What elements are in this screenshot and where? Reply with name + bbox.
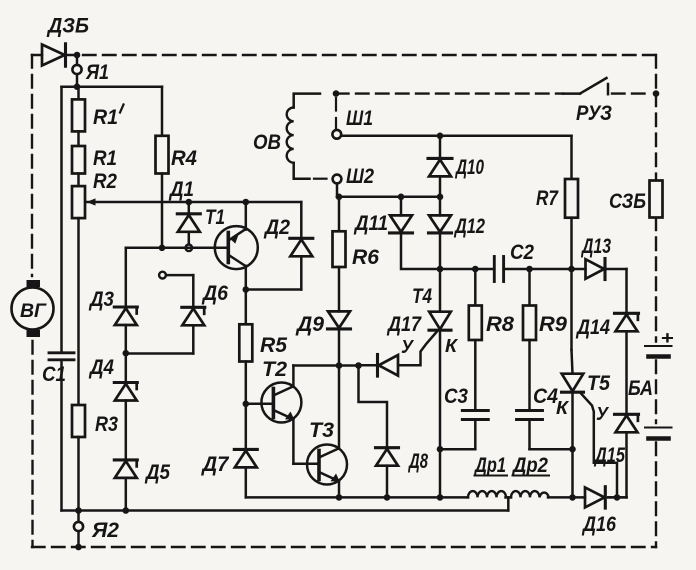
capacitor C3	[462, 411, 488, 420]
wire top-left horizontal	[62, 85, 163, 88]
svg-text:К: К	[556, 398, 570, 418]
label Д16	[581, 513, 616, 536]
wire Д16 to Д15 corner	[608, 496, 626, 499]
terminal Я1 circle	[72, 55, 81, 87]
wire R5 to Т2 base node	[245, 362, 248, 404]
wire test point to Д6	[166, 275, 193, 307]
node R4 / base line	[159, 245, 166, 252]
resistor R1'	[72, 99, 85, 131]
label Д15	[593, 444, 625, 467]
node C4 / Т5 cathode line	[569, 446, 576, 453]
node Т1 collector / R5	[243, 286, 250, 293]
svg-text:Д2: Д2	[263, 216, 290, 239]
diode Д10	[428, 136, 452, 197]
choke Др1	[468, 491, 506, 497]
diode Д13	[586, 259, 606, 280]
resistor R8	[469, 269, 482, 340]
resistor R6	[333, 197, 346, 267]
terminal Ш1 circle	[332, 130, 341, 139]
wire C2 line right	[504, 268, 586, 271]
svg-text:Др1: Др1	[473, 454, 506, 477]
dashed link to Ш2	[314, 178, 331, 180]
enclosure border right segment 2 (dashed)	[655, 94, 657, 181]
transistor Т1 collector	[228, 255, 246, 290]
wire R7 to C2 line	[570, 218, 573, 269]
diode Д11	[390, 197, 441, 269]
wire to R1'	[77, 87, 80, 100]
transistor Т3 circle	[307, 445, 347, 485]
svg-text:С4: С4	[533, 385, 558, 408]
svg-text:С2: С2	[510, 241, 534, 264]
diode ДЗБ (battery-sense diode, top-left)	[42, 44, 66, 66]
wire Т4 cathode down	[439, 449, 442, 497]
label Я1	[85, 61, 109, 84]
enclosure border right segment 5 (dashed)	[655, 443, 657, 548]
label Д2	[263, 216, 290, 239]
label ВГ	[20, 301, 47, 322]
diode Д17	[378, 355, 399, 377]
node C3 / Т4 cathode line	[437, 446, 444, 453]
diode Д12	[429, 197, 452, 269]
node R8 top	[472, 266, 479, 273]
test point circle near Д6	[159, 272, 166, 279]
svg-text:R6: R6	[352, 246, 379, 269]
svg-text:R2: R2	[93, 170, 117, 193]
wire bottom main	[246, 496, 468, 499]
transistor Т2 base bar	[272, 389, 276, 418]
wire R3 to lower bottom wire	[77, 437, 80, 511]
svg-text:Т2: Т2	[262, 358, 287, 381]
wire R8 to C3	[474, 340, 477, 411]
diode Д2	[290, 202, 313, 290]
resistor R1	[72, 146, 85, 174]
enclosure border left lower (dashed)	[31, 341, 33, 547]
label Д9	[295, 313, 324, 336]
label Д1	[168, 178, 194, 201]
diode Д8	[376, 448, 399, 498]
label РУЗ	[576, 102, 612, 125]
node R7 / Д13 / Т5	[568, 266, 575, 273]
diode Д7	[234, 404, 257, 498]
node У line on output	[614, 494, 621, 501]
fuse СЗБ	[650, 181, 663, 218]
svg-text:СЗБ: СЗБ	[609, 190, 646, 213]
svg-text:Д17: Д17	[386, 313, 422, 336]
node Д12 top	[437, 194, 444, 201]
generator ВГ top brush	[27, 280, 41, 287]
label Т3	[309, 419, 334, 442]
svg-text:Т1: Т1	[205, 206, 225, 229]
choke midpoint riser	[506, 497, 512, 510]
svg-text:R7: R7	[536, 187, 559, 210]
thyristor Т4 gate wire	[400, 332, 437, 365]
label У of Т5	[596, 404, 610, 424]
label Т1	[205, 206, 225, 229]
zener Д15	[615, 414, 639, 432]
transistor Т1 circle	[215, 226, 258, 269]
dashed wire РУЗ line	[336, 92, 563, 94]
resistor R7	[565, 179, 578, 218]
node Т4 cathode bottom	[437, 494, 444, 501]
terminal Ш2 circle	[333, 175, 342, 184]
transistor Т3 emitter with arrow	[319, 472, 340, 497]
diode Д9	[328, 311, 351, 365]
wire Ш2 line	[339, 196, 440, 199]
svg-text:ДЗБ: ДЗБ	[46, 15, 89, 38]
wire collector line	[293, 364, 358, 367]
wire C3 to node	[440, 420, 475, 450]
svg-text:Д13: Д13	[580, 235, 611, 258]
wire Я1-node down to C1	[60, 87, 63, 353]
battery cell 2 long plate	[645, 427, 672, 429]
svg-text:БА: БА	[628, 377, 653, 400]
node Я2 on border	[75, 544, 82, 551]
zener Д14	[615, 313, 639, 331]
svg-text:Д6: Д6	[201, 282, 228, 305]
svg-text:Д1: Д1	[168, 178, 194, 201]
label Д3	[88, 288, 114, 311]
transistor Т2 circle	[261, 383, 301, 423]
wire Д17 cathode to node	[359, 364, 378, 367]
label Д14	[575, 316, 610, 339]
wire Д2 bottom to Т1 collector node	[246, 288, 301, 291]
capacitor C2	[494, 257, 503, 282]
transistor Т2 collector	[273, 366, 293, 396]
label Др1	[473, 454, 507, 477]
node Ш2 / R6	[336, 194, 343, 201]
svg-text:Д7: Д7	[201, 453, 230, 476]
resistor R9	[523, 269, 536, 340]
label ОВ	[253, 131, 281, 154]
zener Д5	[114, 460, 137, 511]
svg-text:РУЗ: РУЗ	[576, 102, 612, 125]
resistor R5	[239, 290, 252, 362]
wire base line	[126, 247, 228, 250]
svg-text:У: У	[401, 337, 415, 357]
small circle Д1 cathode on base line	[186, 245, 193, 252]
svg-text:R3: R3	[95, 413, 118, 436]
wire R2 down to R3	[77, 218, 80, 405]
svg-text:У: У	[596, 404, 610, 424]
label Ш2	[346, 165, 374, 188]
wire Т5 cathode down	[571, 449, 574, 497]
label Др2	[511, 454, 549, 477]
wire R1'-R1	[77, 131, 80, 146]
enclosure border left upper (dashed)	[31, 55, 33, 276]
node at top border / Я1	[74, 52, 81, 59]
svg-text:ВГ: ВГ	[20, 301, 47, 322]
label Д7	[201, 453, 230, 476]
svg-text:Др2: Др2	[511, 454, 548, 477]
svg-text:Я2: Я2	[91, 519, 119, 542]
wire lower bottom	[62, 509, 509, 512]
label К of Т5	[556, 398, 570, 418]
svg-text:Т3: Т3	[309, 419, 334, 442]
node Д1 top	[186, 199, 193, 206]
wiper arrow into R2	[87, 198, 302, 205]
capacitor C1	[49, 353, 74, 360]
node Т5 cathode bottom	[569, 494, 576, 501]
relay contact РУЗ	[563, 78, 608, 94]
label СЗБ	[609, 190, 646, 213]
label R6	[352, 246, 379, 269]
capacitor C4	[517, 411, 543, 420]
label Т4	[412, 285, 432, 308]
svg-text:ОВ: ОВ	[253, 131, 281, 154]
label Д4	[88, 356, 114, 379]
wire C1 to lower bottom wire	[60, 360, 63, 511]
wire Др2 to Д16	[548, 496, 585, 499]
label Я2	[91, 519, 119, 542]
wire to R4	[161, 87, 164, 136]
svg-text:Д5: Д5	[144, 461, 170, 484]
dashed drop to Ш1	[335, 98, 337, 129]
label C3	[444, 385, 468, 408]
label Ш1	[346, 107, 373, 130]
label Д5	[144, 461, 170, 484]
enclosure border bottom (dashed)	[32, 546, 656, 548]
wire D3B cathode to node Ya1-top	[66, 54, 77, 57]
resistor R4	[156, 136, 169, 174]
svg-text:Ш1: Ш1	[346, 107, 373, 130]
enclosure border top-left corner and wire to D3B	[32, 54, 42, 57]
choke Др2	[511, 491, 549, 497]
wire Д14 to Д15	[625, 331, 628, 414]
node ОВ / dashed РУЗ line	[333, 90, 340, 97]
enclosure border right segment 1 (dashed)	[655, 55, 657, 94]
svg-text:R9: R9	[539, 313, 567, 336]
svg-text:R4: R4	[171, 147, 197, 170]
enclosure border top (dashed)	[83, 54, 656, 56]
battery cell 1 short plate	[649, 354, 669, 359]
label У of Т4	[401, 337, 415, 357]
node R9 top	[526, 266, 533, 273]
node Т3 emitter bottom	[336, 494, 343, 501]
wire C4 to node	[530, 420, 573, 450]
generator ВГ bottom brush	[27, 330, 41, 337]
node Д12 / C2 line / Т4	[437, 266, 444, 273]
wire R6 to Д9	[338, 267, 341, 311]
label R7	[536, 187, 559, 210]
wire Д13 to Д14	[608, 269, 627, 313]
thyristor Т5	[562, 269, 584, 449]
transistor Т1 emitter with arrow	[228, 202, 246, 244]
label R5	[260, 334, 287, 357]
label R9	[539, 313, 567, 336]
label К of Т4	[445, 336, 459, 356]
node Д8 bottom	[384, 494, 391, 501]
zener Д6	[182, 307, 205, 353]
node Д11 top	[398, 194, 405, 201]
label Д8	[408, 450, 429, 473]
node R3 / Я2	[75, 507, 82, 514]
diode Д16	[585, 487, 605, 508]
label R1'	[93, 105, 124, 130]
generator ВГ circle	[12, 288, 54, 330]
svg-text:Д11: Д11	[353, 212, 388, 235]
svg-text:Д10: Д10	[455, 156, 485, 179]
svg-text:Д9: Д9	[295, 313, 324, 336]
svg-text:+: +	[661, 328, 675, 348]
svg-text:Д3: Д3	[88, 288, 114, 311]
label Д12	[453, 215, 485, 238]
label R8	[486, 313, 514, 336]
label + of battery	[661, 328, 675, 348]
label R1	[93, 147, 117, 170]
transistor Т1 base bar	[227, 233, 231, 263]
resistor R3	[72, 405, 85, 437]
label R4	[171, 147, 197, 170]
label Т5	[587, 372, 610, 395]
thyristor Т4	[429, 269, 451, 449]
label C1	[42, 363, 66, 386]
wire C2 line left	[440, 268, 494, 271]
label Д11	[353, 212, 388, 235]
node Д5 bottom	[123, 507, 130, 514]
node Д8-Д17 branch	[355, 362, 362, 369]
wire Т2 emitter to Т3 base	[293, 463, 319, 466]
field winding ОВ	[287, 94, 320, 179]
zener Д4	[114, 353, 137, 460]
label Д13	[580, 235, 611, 258]
wire Д6 bottom to node Д3-Д4	[126, 352, 194, 355]
svg-text:R1: R1	[93, 147, 117, 170]
transistor Т3 base bar	[317, 451, 321, 480]
wire Ш1 line	[341, 135, 571, 138]
svg-text:R1: R1	[93, 106, 118, 129]
node РУЗ right border	[653, 90, 660, 97]
wire Ш2 drop	[337, 183, 339, 196]
resistor R2 (adjustable)	[72, 186, 85, 218]
wire R9 to C4	[528, 340, 531, 411]
node Т2 base / Д7	[243, 401, 250, 408]
dashed wire РУЗ to right border	[612, 92, 650, 94]
wire base line corner down to Д3	[125, 248, 128, 307]
svg-text:Ш2: Ш2	[346, 165, 374, 188]
node below Я1	[74, 83, 81, 90]
svg-text:Д8: Д8	[408, 450, 429, 473]
wire Д15 to output corner	[608, 432, 626, 497]
label Д10	[455, 156, 485, 179]
transistor Т2 emitter with arrow	[273, 410, 294, 464]
label ДЗБ	[46, 15, 89, 38]
label R3	[95, 413, 118, 436]
node Д9 bottom / collectors	[336, 362, 343, 369]
node Т1 emitter top	[243, 199, 250, 206]
wire R1-R2	[77, 174, 80, 187]
transistor Т3 collector	[319, 366, 339, 458]
svg-text:Д16: Д16	[581, 513, 616, 536]
svg-text:Т5: Т5	[587, 372, 610, 395]
label C4	[533, 385, 558, 408]
enclosure border right segment 3 (dashed)	[655, 218, 657, 342]
thyristor Т5 gate wire	[581, 394, 617, 498]
battery cell 1 long plate	[645, 345, 672, 347]
battery cell 2 short plate	[649, 436, 669, 441]
zener Д3	[114, 307, 137, 353]
label Т2	[262, 358, 287, 381]
diode Д1	[177, 202, 200, 244]
terminal Я2 circle	[74, 511, 83, 548]
svg-text:К: К	[445, 336, 459, 356]
label R2	[93, 170, 117, 193]
label C2	[510, 241, 534, 264]
wire R7 drop	[570, 136, 573, 179]
svg-text:С3: С3	[444, 385, 468, 408]
node Ш1/Д10	[437, 133, 444, 140]
svg-text:Т4: Т4	[412, 285, 432, 308]
svg-text:R8: R8	[486, 313, 514, 336]
enclosure border right segment 4 (dashed)	[655, 361, 657, 424]
wire Д8 branch	[359, 366, 388, 448]
label Д17	[386, 313, 422, 336]
wire R4 to base line	[161, 174, 164, 248]
svg-text:Д4: Д4	[88, 356, 114, 379]
label БА	[628, 377, 653, 400]
svg-text:R5: R5	[260, 334, 287, 357]
node Д3-Д4-Д6	[123, 350, 130, 357]
svg-text:Д14: Д14	[575, 316, 610, 339]
svg-text:Д12: Д12	[453, 215, 485, 238]
wire Т2 base	[246, 403, 274, 406]
svg-text:Я1: Я1	[85, 61, 109, 84]
label Д6	[201, 282, 228, 305]
